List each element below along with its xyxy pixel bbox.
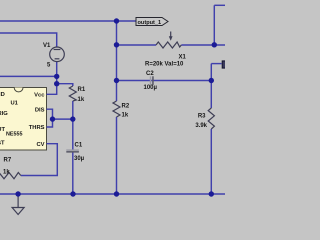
svg-text:C2: C2 xyxy=(146,71,154,77)
svg-text:R=20k Val=10: R=20k Val=10 xyxy=(145,62,184,68)
svg-text:R7: R7 xyxy=(4,158,12,164)
svg-text:DIS: DIS xyxy=(35,108,45,114)
svg-text:1k: 1k xyxy=(3,170,10,176)
svg-text:THRS: THRS xyxy=(29,125,45,131)
svg-text:1k: 1k xyxy=(122,113,129,119)
svg-text:1k: 1k xyxy=(78,97,85,103)
svg-text:output_1: output_1 xyxy=(138,20,162,26)
svg-text:100µ: 100µ xyxy=(144,85,158,91)
svg-text:Vcc: Vcc xyxy=(34,93,45,99)
svg-text:OUT: OUT xyxy=(0,127,5,133)
svg-text:3.9k: 3.9k xyxy=(195,123,207,129)
svg-text:R2: R2 xyxy=(122,104,130,110)
svg-text:RST: RST xyxy=(0,140,5,146)
svg-text:X1: X1 xyxy=(179,55,187,61)
svg-text:TRIG: TRIG xyxy=(0,111,8,117)
svg-text:U1: U1 xyxy=(11,101,19,107)
svg-text:C1: C1 xyxy=(75,143,83,149)
svg-text:R3: R3 xyxy=(198,114,206,120)
svg-text:NE555: NE555 xyxy=(6,132,22,138)
svg-text:CV: CV xyxy=(36,142,44,148)
svg-text:V1: V1 xyxy=(43,43,51,49)
svg-text:R1: R1 xyxy=(78,87,86,93)
svg-text:30µ: 30µ xyxy=(74,156,85,162)
svg-text:GND: GND xyxy=(0,92,5,98)
